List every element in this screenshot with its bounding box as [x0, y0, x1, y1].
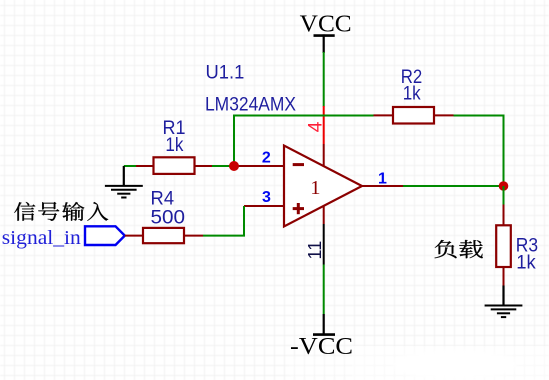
op-amp U1 triangle [284, 146, 362, 227]
resistor R4 [125, 189, 203, 244]
svg-text:1k: 1k [165, 135, 183, 156]
wire node to R3 [503, 186, 505, 205]
ground GND left [105, 166, 143, 198]
wire feedback left [234, 116, 374, 167]
svg-text:1k: 1k [516, 253, 536, 274]
wire pin 11 to -VCC [323, 265, 325, 315]
port signal_in [2, 226, 125, 249]
wire R1 to node [212, 165, 234, 167]
watermark [352, 346, 549, 380]
wire R4 to pin 3 [203, 206, 244, 236]
resistor R1 [136, 118, 212, 174]
svg-text:R4: R4 [151, 189, 175, 210]
wire gnd to R1 [124, 165, 137, 167]
svg-text:4: 4 [304, 121, 326, 132]
label xin hao shu ru [14, 202, 108, 221]
power -VCC symbol [290, 314, 353, 360]
junction node inverting input [229, 161, 239, 171]
op-amp pin 3 [244, 189, 284, 206]
wire VCC rail [323, 52, 325, 107]
resistor R3 [496, 205, 538, 286]
svg-text:VCC: VCC [300, 12, 352, 38]
svg-text:2: 2 [262, 150, 271, 167]
svg-text:3: 3 [262, 189, 271, 206]
svg-text:LM324AMX: LM324AMX [205, 94, 296, 115]
op-amp pin 11 [305, 206, 325, 265]
op-amp pin 1 output [362, 171, 403, 188]
svg-text:U1.1: U1.1 [206, 63, 245, 84]
svg-text:signal_in: signal_in [2, 227, 81, 249]
op-amp U1 pin 4 [304, 106, 326, 166]
svg-text:1: 1 [378, 171, 387, 188]
svg-text:11: 11 [305, 241, 325, 260]
svg-text:1: 1 [310, 177, 320, 199]
wire output to load [403, 185, 504, 187]
resistor R2 [374, 67, 454, 124]
ground GND right [485, 286, 523, 318]
junction node output [499, 181, 509, 191]
wire feedback right [454, 116, 504, 187]
label fu zai [435, 240, 483, 258]
op-amp pin 2 [234, 150, 284, 167]
svg-text:500: 500 [151, 208, 186, 229]
svg-text:1k: 1k [403, 83, 421, 104]
power VCC symbol [300, 12, 352, 54]
